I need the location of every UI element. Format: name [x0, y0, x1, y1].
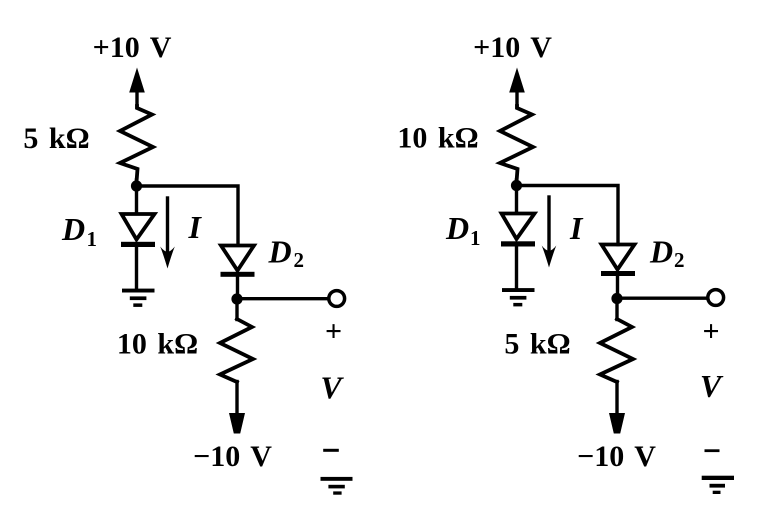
- svg-text:10 kΩ: 10 kΩ: [397, 122, 478, 155]
- svg-text:I: I: [188, 209, 203, 245]
- output terminal circle (left): [329, 291, 345, 307]
- label D1 (right): [445, 210, 481, 250]
- power arrow up (right +10 V): [509, 68, 525, 108]
- svg-text:+10 V: +10 V: [93, 31, 172, 64]
- svg-text:V: V: [700, 368, 724, 404]
- svg-text:2: 2: [674, 248, 685, 272]
- wire node D to output terminal: [617, 297, 707, 300]
- power arrow up (left +10 V): [129, 68, 145, 108]
- node C dot: [511, 180, 522, 191]
- label 10 kOhm (right top): [397, 122, 478, 155]
- label 5 kOhm (right bottom): [504, 328, 570, 361]
- output terminal circle (right): [708, 290, 724, 306]
- label 5 kOhm: [23, 122, 89, 155]
- diode D2 triangle (right): [602, 245, 635, 270]
- svg-text:−10 V: −10 V: [577, 440, 656, 473]
- current arrow I (right): [542, 197, 557, 268]
- svg-text:D: D: [61, 211, 85, 247]
- diode D2 cathode bar (left): [221, 272, 255, 277]
- ground (left, under D1): [122, 289, 155, 307]
- wire node B to output terminal: [237, 297, 327, 300]
- label D2 (right): [649, 234, 685, 273]
- svg-text:10 kΩ: 10 kΩ: [117, 328, 198, 361]
- svg-text:D: D: [268, 234, 292, 270]
- svg-text:5 kΩ: 5 kΩ: [23, 122, 89, 155]
- wire node C column: [515, 180, 518, 187]
- wire node A column: [135, 180, 138, 187]
- svg-text:1: 1: [87, 227, 98, 251]
- wire node A to D2 branch (horizontal + corner down): [137, 186, 239, 245]
- resistor R4 5 kOhm (right bottom): [600, 299, 633, 415]
- label D1: [61, 211, 97, 251]
- svg-text:−10 V: −10 V: [193, 440, 272, 473]
- svg-text:2: 2: [294, 248, 305, 272]
- diode D1 cathode bar: [121, 242, 155, 247]
- wire D1 cathode to ground: [135, 247, 138, 289]
- resistor R1 5 kOhm (left top): [120, 106, 153, 182]
- diode D1 triangle: [122, 214, 155, 240]
- resistor R2 10 kOhm (left bottom): [220, 299, 253, 414]
- label minus output (left): [323, 449, 339, 452]
- power arrow down (right -10 V): [609, 413, 625, 434]
- diode D1 triangle (right): [502, 214, 535, 240]
- ground (left output): [321, 477, 353, 495]
- wire node C to D2 branch (horizontal + corner down): [517, 186, 619, 245]
- svg-text:1: 1: [470, 226, 481, 250]
- label -10 V (right): [577, 440, 656, 473]
- label V output (right): [700, 368, 724, 404]
- power arrow down (left -10 V): [229, 413, 245, 434]
- wire D2 cathode to node D: [616, 276, 619, 299]
- label V output (left): [320, 370, 344, 406]
- svg-text:D: D: [649, 234, 673, 270]
- label + output polarity (right): [702, 315, 719, 348]
- current arrow I (left): [160, 198, 175, 269]
- svg-text:+10 V: +10 V: [473, 31, 552, 64]
- label +10 V (right supply): [473, 31, 552, 64]
- svg-text:5 kΩ: 5 kΩ: [504, 328, 570, 361]
- label I (left): [188, 209, 203, 245]
- diode D2 cathode bar (right): [601, 271, 635, 276]
- label +10 V (left supply): [93, 31, 172, 64]
- wire D2 cathode to node B: [236, 277, 239, 299]
- wire D1 anode: [135, 186, 138, 214]
- node A dot: [131, 180, 142, 191]
- label + output polarity (left): [325, 315, 342, 348]
- ground (right, under D1): [502, 288, 535, 306]
- ground (right output): [702, 476, 734, 494]
- resistor R3 10 kOhm (right top): [500, 106, 533, 182]
- label I (right): [569, 210, 584, 246]
- svg-text:I: I: [569, 210, 584, 246]
- label 10 kOhm (left): [117, 328, 198, 361]
- label minus output (right): [705, 449, 720, 452]
- diode D2 triangle (left): [221, 246, 254, 271]
- svg-text:+: +: [702, 315, 719, 348]
- svg-text:V: V: [320, 370, 344, 406]
- label -10 V (left): [193, 440, 272, 473]
- svg-text:+: +: [325, 315, 342, 348]
- svg-text:D: D: [445, 210, 469, 246]
- wire D1 anode (right): [515, 186, 518, 214]
- node D dot (right output node): [611, 293, 622, 304]
- label D2 (left): [268, 234, 305, 273]
- wire D1 cathode to ground (right): [515, 247, 518, 289]
- node B dot (left output node): [231, 293, 242, 304]
- diode D1 cathode bar (right): [501, 241, 535, 246]
